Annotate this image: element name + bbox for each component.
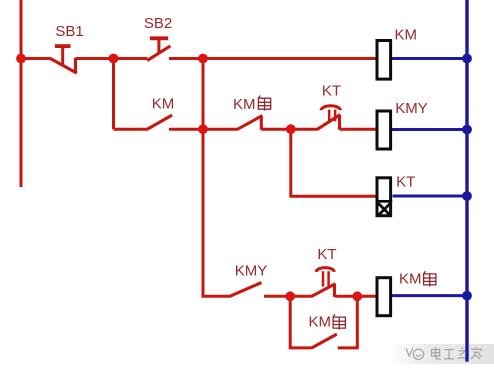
svg-text:SB2: SB2 bbox=[144, 15, 172, 32]
svg-text:KMY: KMY bbox=[395, 100, 428, 117]
svg-text:KM: KM bbox=[309, 314, 332, 331]
svg-text:KM: KM bbox=[395, 27, 418, 44]
svg-text:KM: KM bbox=[233, 96, 256, 113]
svg-text:KT: KT bbox=[396, 173, 415, 190]
svg-text:KM: KM bbox=[399, 271, 422, 288]
svg-text:KT: KT bbox=[322, 83, 341, 100]
svg-text:KT: KT bbox=[317, 246, 336, 263]
svg-text:SB1: SB1 bbox=[55, 23, 83, 40]
svg-text:KM: KM bbox=[152, 96, 175, 113]
svg-text:KMY: KMY bbox=[235, 262, 268, 279]
